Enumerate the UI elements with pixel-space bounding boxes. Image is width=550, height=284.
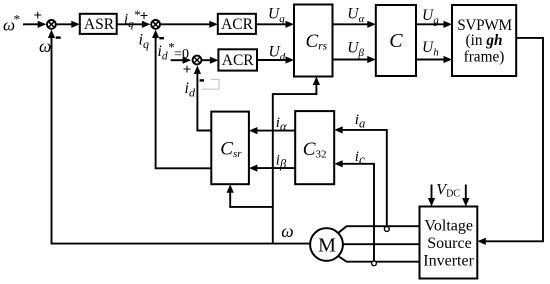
svg-text:ω: ω: [39, 36, 51, 56]
svg-text:Voltage: Voltage: [424, 218, 473, 235]
svg-text:+: +: [183, 62, 192, 78]
svg-text:*: *: [13, 12, 20, 27]
svg-text:C: C: [389, 30, 403, 52]
svg-text:Uh: Uh: [422, 39, 439, 59]
svg-text:Inverter: Inverter: [423, 252, 474, 269]
svg-text:+: +: [140, 9, 149, 25]
svg-text:iα: iα: [276, 115, 287, 134]
svg-text:VDC: VDC: [436, 181, 460, 199]
svg-text:id: id: [185, 80, 196, 100]
svg-text:ic: ic: [355, 149, 365, 167]
svg-text:(in gh: (in gh: [466, 32, 503, 49]
svg-text:ia: ia: [355, 112, 365, 131]
svg-text:M: M: [318, 235, 336, 257]
svg-text:ASR: ASR: [84, 16, 115, 33]
svg-text:id*=0: id*=0: [158, 39, 189, 62]
svg-text:iβ: iβ: [276, 152, 287, 171]
svg-text:ω: ω: [281, 221, 293, 241]
svg-text:iq: iq: [139, 32, 149, 52]
svg-text:frame): frame): [464, 48, 505, 65]
svg-text:Uα: Uα: [347, 5, 364, 25]
svg-text:Source: Source: [427, 235, 471, 252]
svg-text:+: +: [34, 8, 43, 24]
svg-text:Ug: Ug: [422, 7, 439, 27]
svg-text:Uβ: Uβ: [347, 40, 364, 60]
svg-text:Uq: Uq: [268, 6, 285, 26]
svg-text:Ud: Ud: [269, 44, 286, 64]
svg-text:iq*: iq*: [124, 7, 141, 30]
svg-text:ACR: ACR: [221, 16, 254, 33]
svg-text:ACR: ACR: [222, 52, 255, 69]
